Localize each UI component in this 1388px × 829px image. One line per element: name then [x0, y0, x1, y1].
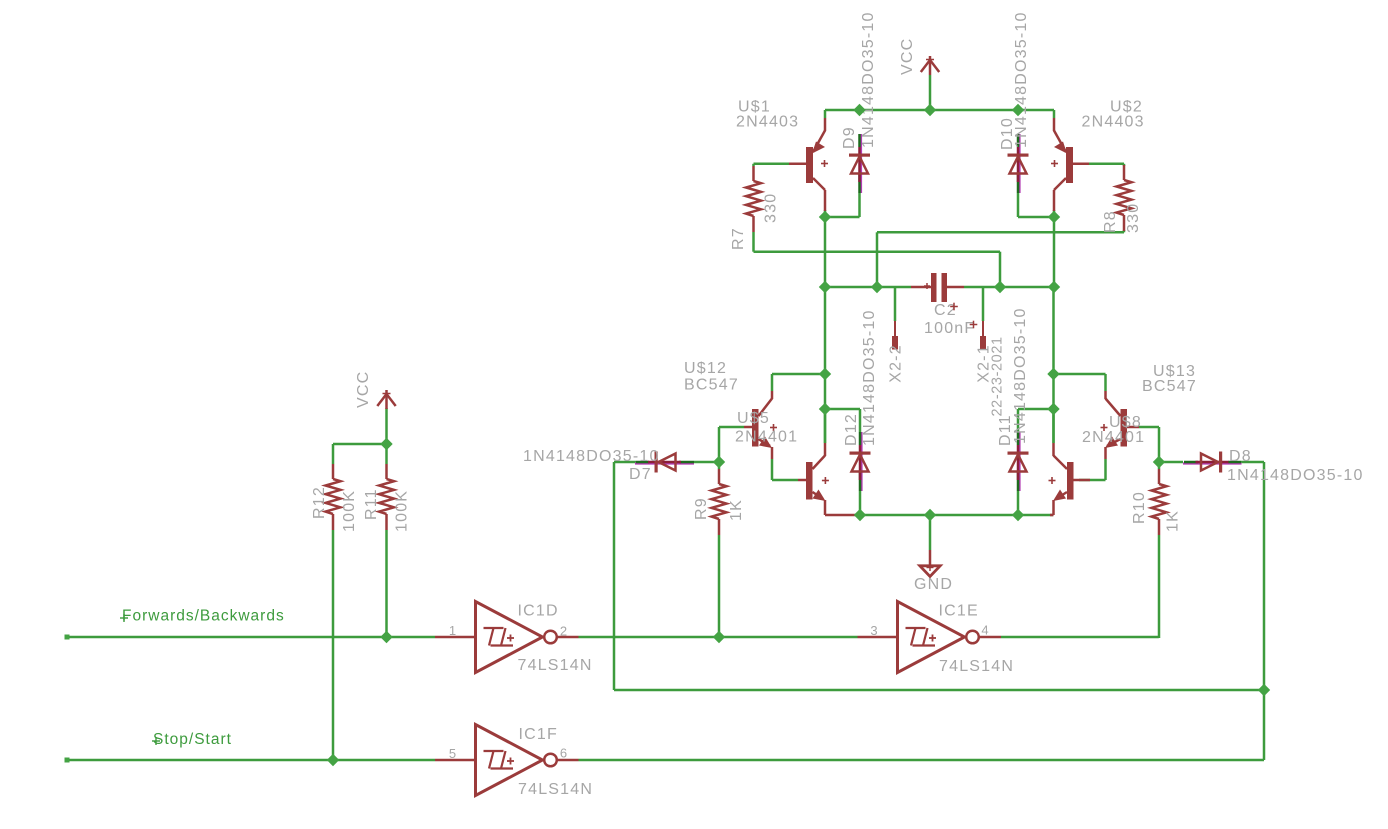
ground GND — [929, 550, 932, 566]
diode D7 1N4148 (points left) — [635, 452, 694, 473]
power VCC (top) — [929, 56, 932, 75]
wire R7 base link — [754, 163, 790, 166]
svg-text:74LS14N: 74LS14N — [518, 781, 593, 798]
wire D9 bottom L — [858, 193, 861, 217]
wire R12 bottom — [332, 530, 335, 760]
transistor U$2 2N4403 — [1051, 118, 1073, 211]
wire right column 1054 down — [1053, 217, 1056, 287]
resistor R9 1K — [718, 469, 721, 484]
svg-text:R8: R8 — [1102, 210, 1119, 233]
svg-text:GND: GND — [914, 576, 953, 593]
wire GND stem — [929, 515, 932, 550]
resistor R11 100K — [385, 464, 388, 479]
svg-text:X2-2: X2-2 — [888, 344, 905, 383]
svg-text:U$12: U$12 — [684, 360, 727, 377]
svg-text:R10: R10 — [1131, 491, 1148, 524]
svg-text:2N4401: 2N4401 — [1082, 429, 1145, 446]
svg-text:Forwards/Backwards: Forwards/Backwards — [122, 608, 285, 625]
wire R7 column — [752, 164, 755, 166]
diode D10 1N4148 — [1018, 134, 1020, 193]
svg-text:R9: R9 — [693, 497, 710, 520]
transistor U$13 BC547 — [1101, 391, 1128, 459]
power VCC (left) — [385, 390, 388, 409]
diode D8 1N4148 (points right) — [1183, 452, 1242, 473]
op-amp/inverter IC1F 74LS14N — [476, 725, 543, 796]
wire VCC stem top — [929, 75, 932, 110]
svg-text:2: 2 — [560, 624, 567, 639]
wire Forwards/Backwards input — [67, 636, 435, 639]
svg-text:R7: R7 — [730, 227, 747, 250]
op-amp/inverter IC1D 74LS14N — [476, 602, 543, 673]
wire D10 bottom L — [1017, 193, 1020, 217]
resistor R12 100K — [332, 464, 335, 479]
connector pin X2-2 — [894, 321, 896, 337]
svg-text:BC547: BC547 — [1142, 378, 1197, 395]
op-amp/inverter IC1E 74LS14N — [898, 602, 965, 673]
svg-text:IC1E: IC1E — [939, 603, 979, 620]
svg-text:1K: 1K — [728, 499, 745, 521]
wire VCC left stem — [385, 408, 388, 444]
svg-text:IC1F: IC1F — [519, 726, 558, 743]
wire IC1F out to right column — [579, 759, 1265, 762]
wire U$13 emitter to U$8 base — [1104, 459, 1107, 480]
wire R11 bottom — [385, 530, 388, 637]
wire IC1E out — [1001, 636, 1159, 639]
transistor U$8 2N4401 — [1049, 443, 1074, 515]
svg-text:1: 1 — [449, 623, 456, 638]
wire X2-1 stub — [982, 287, 985, 321]
wire U$8 collector stub — [1052, 409, 1055, 443]
svg-text:5: 5 — [449, 746, 456, 761]
wire R9 column — [718, 462, 721, 469]
svg-text:2N4401: 2N4401 — [735, 429, 798, 446]
wire VCC top rail — [825, 109, 1054, 112]
wire X2-2 stub — [894, 287, 897, 321]
wire U$12 collector link — [772, 373, 825, 376]
svg-text:D12: D12 — [843, 413, 860, 446]
wire U$12 base from junction — [719, 426, 744, 429]
capacitor C2 100nF — [931, 273, 937, 302]
wire U$1 emitter top stub — [824, 110, 827, 118]
svg-text:100K: 100K — [394, 490, 411, 532]
svg-text:330: 330 — [1125, 203, 1142, 233]
svg-text:D8: D8 — [1229, 448, 1252, 465]
wire D8 column down — [1263, 462, 1266, 690]
wire D8 right — [1241, 461, 1264, 464]
svg-text:BC547: BC547 — [684, 377, 739, 394]
connector pin X2-1 — [982, 321, 984, 337]
wire U$2 collector to junction — [1053, 210, 1056, 217]
wire left column 825 down — [824, 217, 827, 287]
svg-text:330: 330 — [763, 193, 780, 223]
wire D7 column down — [613, 462, 616, 690]
pin red segments — [435, 636, 475, 639]
transistor U$1 2N4403 — [806, 118, 828, 211]
svg-text:R11: R11 — [363, 488, 380, 520]
wire R8 column — [1123, 164, 1126, 166]
resistor R8 330 — [1123, 165, 1126, 180]
wire U$5 collector stub — [824, 409, 827, 443]
svg-text:D7: D7 — [629, 466, 652, 483]
wire U$12 emitter to U$5 base — [771, 459, 774, 480]
svg-text:VCC: VCC — [899, 38, 916, 75]
svg-text:1N4148DO35-10: 1N4148DO35-10 — [1013, 11, 1030, 148]
wire bottom rail of bridge — [857, 514, 1053, 517]
wire R11 R12 top link — [333, 443, 387, 446]
wire D7 right — [694, 461, 719, 464]
wire Stop/Start input — [67, 759, 435, 762]
wire D11 bottom — [1017, 491, 1020, 515]
svg-text:IC1D: IC1D — [518, 603, 559, 620]
wire R10 column — [1158, 462, 1161, 469]
diode D11 1N4148 — [1018, 432, 1020, 491]
svg-text:100nF: 100nF — [924, 320, 975, 337]
svg-text:6: 6 — [560, 746, 567, 761]
svg-text:74LS14N: 74LS14N — [518, 657, 593, 674]
svg-text:1K: 1K — [1165, 510, 1182, 532]
wire U$2 emitter top stub — [1053, 110, 1056, 118]
wire D11 top link — [1018, 408, 1054, 411]
svg-text:1N4148DO35-10: 1N4148DO35-10 — [523, 448, 660, 465]
svg-text:1N4148DO35-10: 1N4148DO35-10 — [861, 309, 878, 446]
wire R8 base link — [1089, 163, 1124, 166]
svg-text:74LS14N: 74LS14N — [939, 658, 1014, 675]
wire U$13 collector link — [1054, 373, 1106, 376]
svg-text:2N4403: 2N4403 — [736, 114, 799, 131]
transistor U$5 2N4401 — [806, 443, 829, 515]
wire IC1D out to IC1E in — [579, 636, 858, 639]
wire D12 bottom — [859, 491, 862, 515]
resistor R10 1K — [1158, 469, 1161, 484]
wire cross net R8 to left cap node — [877, 231, 1124, 234]
wire cap row left — [825, 286, 911, 289]
svg-text:D9: D9 — [841, 126, 858, 149]
node input endpoints — [65, 635, 70, 640]
junction dots — [853, 104, 865, 116]
svg-text:1N4148DO35-10: 1N4148DO35-10 — [1227, 467, 1364, 484]
svg-text:100K: 100K — [341, 490, 358, 532]
wire U$13 base from junction — [1139, 426, 1159, 429]
transistor U$12 BC547 — [752, 391, 777, 459]
svg-text:VCC: VCC — [355, 371, 372, 408]
svg-text:4: 4 — [981, 623, 988, 638]
wire inverted F/B net along y=690 — [614, 689, 1264, 692]
wire R11 top stub — [385, 444, 388, 464]
svg-text:1N4148DO35-10: 1N4148DO35-10 — [1012, 307, 1029, 444]
wire cross net R7 to right cap node — [754, 250, 1001, 253]
svg-text:U$5: U$5 — [737, 410, 770, 427]
svg-text:22-23-2021: 22-23-2021 — [990, 336, 1006, 416]
svg-text:1N4148DO35-10: 1N4148DO35-10 — [860, 11, 877, 148]
svg-text:2N4403: 2N4403 — [1082, 114, 1145, 131]
wire D8 left — [1159, 461, 1183, 464]
wire D12 top link — [825, 408, 860, 411]
svg-text:Stop/Start: Stop/Start — [153, 731, 232, 748]
wire U$1 collector to junction — [824, 210, 827, 217]
svg-text:R12: R12 — [311, 486, 328, 519]
svg-text:3: 3 — [870, 623, 877, 638]
diode D9 1N4148 — [860, 134, 862, 193]
wire D7 left — [614, 461, 636, 464]
wire cap row right — [964, 286, 1054, 289]
resistor R7 330 — [752, 166, 755, 181]
diode D12 1N4148 — [860, 432, 862, 491]
